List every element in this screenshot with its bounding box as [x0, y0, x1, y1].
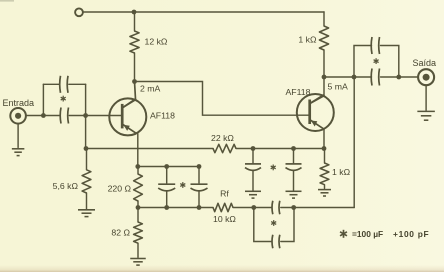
- svg-text:Entrada: Entrada: [3, 98, 35, 108]
- svg-text:82 Ω: 82 Ω: [111, 228, 130, 238]
- svg-text:1 kΩ: 1 kΩ: [332, 167, 351, 177]
- svg-text:5,6 kΩ: 5,6 kΩ: [53, 181, 79, 191]
- svg-text:1 kΩ: 1 kΩ: [298, 35, 317, 45]
- svg-text:AF118: AF118: [150, 111, 175, 121]
- svg-text:Rf: Rf: [220, 189, 229, 199]
- svg-text:22 kΩ: 22 kΩ: [211, 133, 234, 143]
- svg-text:AF118: AF118: [286, 87, 311, 97]
- svg-text:=100 µF: =100 µF: [352, 229, 383, 239]
- svg-text:220 Ω: 220 Ω: [108, 184, 132, 194]
- svg-text:10 kΩ: 10 kΩ: [213, 214, 236, 224]
- svg-text:2 mA: 2 mA: [140, 84, 160, 94]
- svg-text:Saída: Saída: [413, 58, 437, 68]
- svg-text:5 mA: 5 mA: [328, 82, 348, 92]
- svg-text:+100 pF: +100 pF: [393, 229, 429, 239]
- svg-text:12 kΩ: 12 kΩ: [145, 37, 168, 47]
